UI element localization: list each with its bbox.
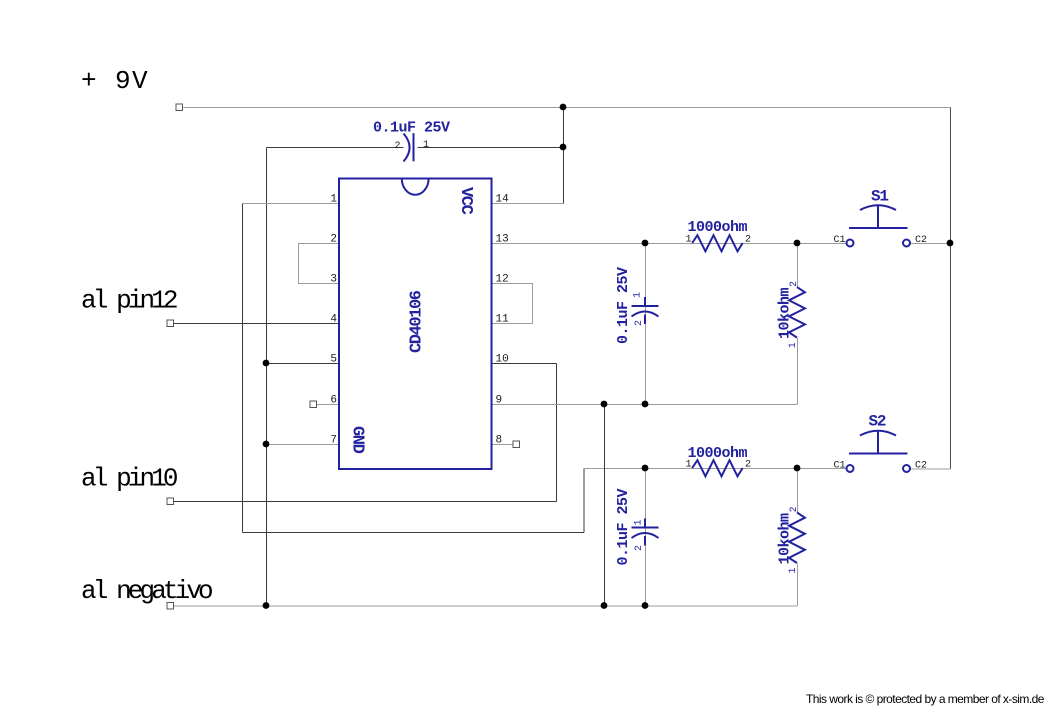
wire pin10 stub <box>492 363 557 365</box>
svg-text:0.1uF 25V: 0.1uF 25V <box>615 267 632 344</box>
junction node pin13-R2 <box>794 240 801 247</box>
svg-text:C2: C2 <box>915 235 927 246</box>
svg-text:C1: C1 <box>833 235 845 246</box>
switch S2 contact C1 circle <box>847 465 854 472</box>
terminal square +9V <box>176 104 183 111</box>
switch S1 bar <box>849 227 908 229</box>
switch S2 contact C2 circle <box>903 465 910 472</box>
wire pin5 stub <box>267 363 340 365</box>
terminal square al pin12 <box>167 320 174 327</box>
junction node negativo-x604 <box>601 602 608 609</box>
capacitor C2 leads <box>644 297 646 324</box>
wire GND vertical at x266 <box>266 148 268 607</box>
wire upper cap C2 branch vertical x645 <box>645 244 647 405</box>
wire pin2-pin3 loop <box>299 244 340 284</box>
junction node VCC-9V <box>560 104 567 111</box>
wire net al-pin10 horizontal <box>174 501 557 503</box>
wire lower resistor R4 top lead <box>797 469 799 514</box>
terminal square pin8 <box>513 441 520 448</box>
wire net al-pin10 vertical at x556 <box>556 364 558 502</box>
wire pin8 stub <box>492 444 513 446</box>
svg-text:S1: S1 <box>871 188 888 206</box>
svg-text:CD40106: CD40106 <box>408 290 427 353</box>
svg-text:C2: C2 <box>915 461 927 472</box>
wire net 9V horizontal <box>184 107 951 109</box>
svg-text:1000ohm: 1000ohm <box>688 219 748 236</box>
switch S1 stem <box>877 206 879 228</box>
resistor R2 zigzag <box>789 287 805 338</box>
junction node VCC-cap <box>560 144 567 151</box>
svg-text:This work is © protected by a: This work is © protected by a member of … <box>806 692 1045 706</box>
svg-text:1: 1 <box>788 342 799 348</box>
wire pin9 net vertical at x604 <box>604 405 606 607</box>
svg-text:1: 1 <box>423 140 429 151</box>
svg-text:0.1uF 25V: 0.1uF 25V <box>373 120 450 137</box>
svg-text:+ 9V: + 9V <box>81 66 149 96</box>
wire pin14 to VCC riser <box>492 203 564 205</box>
wire pin6 stub <box>317 404 340 406</box>
svg-text:S2: S2 <box>869 413 886 431</box>
wire lower resistor R4 bottom lead <box>797 564 799 607</box>
resistor R1 zigzag <box>692 235 743 251</box>
capacitor C2 straight plate <box>632 305 659 307</box>
switch S2 stem <box>877 432 879 454</box>
wire pin12-pin11 loop <box>492 284 533 324</box>
wire pin1 net horizontal y532 <box>243 532 585 534</box>
svg-text:10: 10 <box>496 354 509 366</box>
svg-text:1: 1 <box>685 235 691 246</box>
capacitor C3 curved plate <box>632 533 659 538</box>
wire VCC vertical at x563 <box>563 108 565 204</box>
svg-text:0.1uF 25V: 0.1uF 25V <box>615 488 632 565</box>
svg-text:1: 1 <box>788 567 799 573</box>
capacitor C1 curved plate <box>404 134 410 162</box>
svg-text:12: 12 <box>496 274 509 286</box>
svg-text:4: 4 <box>330 314 337 326</box>
svg-text:2: 2 <box>745 235 751 246</box>
wire S2 C2 to right riser <box>911 468 951 470</box>
wire lower cap C3 branch vertical x645 <box>645 469 647 607</box>
svg-text:2: 2 <box>745 460 751 471</box>
svg-text:1000ohm: 1000ohm <box>688 445 748 462</box>
svg-text:al pin10: al pin10 <box>81 464 177 494</box>
svg-text:C1: C1 <box>833 461 845 472</box>
svg-text:2: 2 <box>789 281 800 287</box>
svg-text:14: 14 <box>496 194 510 206</box>
svg-text:7: 7 <box>330 435 337 447</box>
junction node negativo-C3 <box>642 602 649 609</box>
U1 notch <box>402 179 429 195</box>
wire net al-pin12 to pin4 <box>174 323 340 325</box>
svg-text:8: 8 <box>496 435 503 447</box>
switch S2 arc <box>860 431 896 436</box>
svg-text:1: 1 <box>685 460 691 471</box>
terminal square al pin10 <box>167 498 174 505</box>
svg-text:GND: GND <box>348 426 367 454</box>
svg-text:al negativo: al negativo <box>81 576 212 606</box>
capacitor C3 leads <box>644 519 646 546</box>
wire upper resistor R2 bottom lead <box>797 338 799 405</box>
wire pin13 row to S1 <box>492 243 847 245</box>
junction node negativo-gnd <box>263 602 270 609</box>
resistor R3 zigzag <box>692 460 743 476</box>
svg-text:2: 2 <box>634 320 645 326</box>
wire upper resistor R2 branch vertical x797 top lead <box>797 244 799 288</box>
wire S1 C2 to right riser <box>911 243 951 245</box>
wire pin1 stub <box>243 203 340 205</box>
junction node row468-C3 <box>642 465 649 472</box>
junction node pin9-C2 <box>642 401 649 408</box>
svg-text:10kohm: 10kohm <box>777 513 794 565</box>
wire cap C1 left lead to GND riser <box>267 147 404 149</box>
junction node S1-riser <box>947 240 954 247</box>
svg-text:1: 1 <box>634 519 645 525</box>
capacitor C3 straight plate <box>632 527 659 529</box>
svg-text:13: 13 <box>496 234 509 246</box>
junction node pin7-gnd <box>263 441 270 448</box>
svg-text:2: 2 <box>394 141 400 152</box>
svg-text:3: 3 <box>330 274 337 286</box>
svg-text:al pin12: al pin12 <box>81 286 177 316</box>
svg-text:9: 9 <box>496 395 503 407</box>
svg-text:11: 11 <box>496 314 510 326</box>
wire net negativo horizontal <box>174 605 798 607</box>
terminal square al negativo <box>167 603 174 610</box>
svg-text:6: 6 <box>330 395 337 407</box>
wire pin9 row <box>492 404 798 406</box>
svg-text:10kohm: 10kohm <box>777 287 794 339</box>
terminal square pin6 <box>310 401 317 408</box>
switch S2 bar <box>849 453 908 455</box>
wire net 9V right vertical <box>950 108 952 470</box>
svg-text:2: 2 <box>789 506 800 512</box>
svg-text:1: 1 <box>633 292 644 298</box>
svg-text:2: 2 <box>634 545 645 551</box>
junction node pin9-x604 <box>601 401 608 408</box>
junction node pin13-C2 <box>642 240 649 247</box>
wire cap C1 right lead <box>418 147 564 149</box>
capacitor C2 curved plate <box>632 312 659 317</box>
wire pin1 net vertical at x583.5 <box>583 469 585 533</box>
switch S1 contact C1 circle <box>847 240 854 247</box>
switch S1 arc <box>860 205 896 210</box>
svg-text:VCC: VCC <box>456 187 475 215</box>
wire lower row y468 to S2 <box>584 468 847 470</box>
capacitor C1 straight plate <box>413 133 415 161</box>
junction node row468-R4 <box>794 465 801 472</box>
resistor R4 zigzag <box>789 513 805 564</box>
svg-text:1: 1 <box>330 194 337 206</box>
wire pin7 stub <box>267 444 340 446</box>
switch S1 contact C2 circle <box>903 240 910 247</box>
svg-text:2: 2 <box>330 234 337 246</box>
junction node pin5-gnd <box>263 360 270 367</box>
op-amp U1 CD40106 body <box>339 179 492 470</box>
svg-text:5: 5 <box>330 354 337 366</box>
wire pin1 net vertical at x242 <box>242 204 244 533</box>
